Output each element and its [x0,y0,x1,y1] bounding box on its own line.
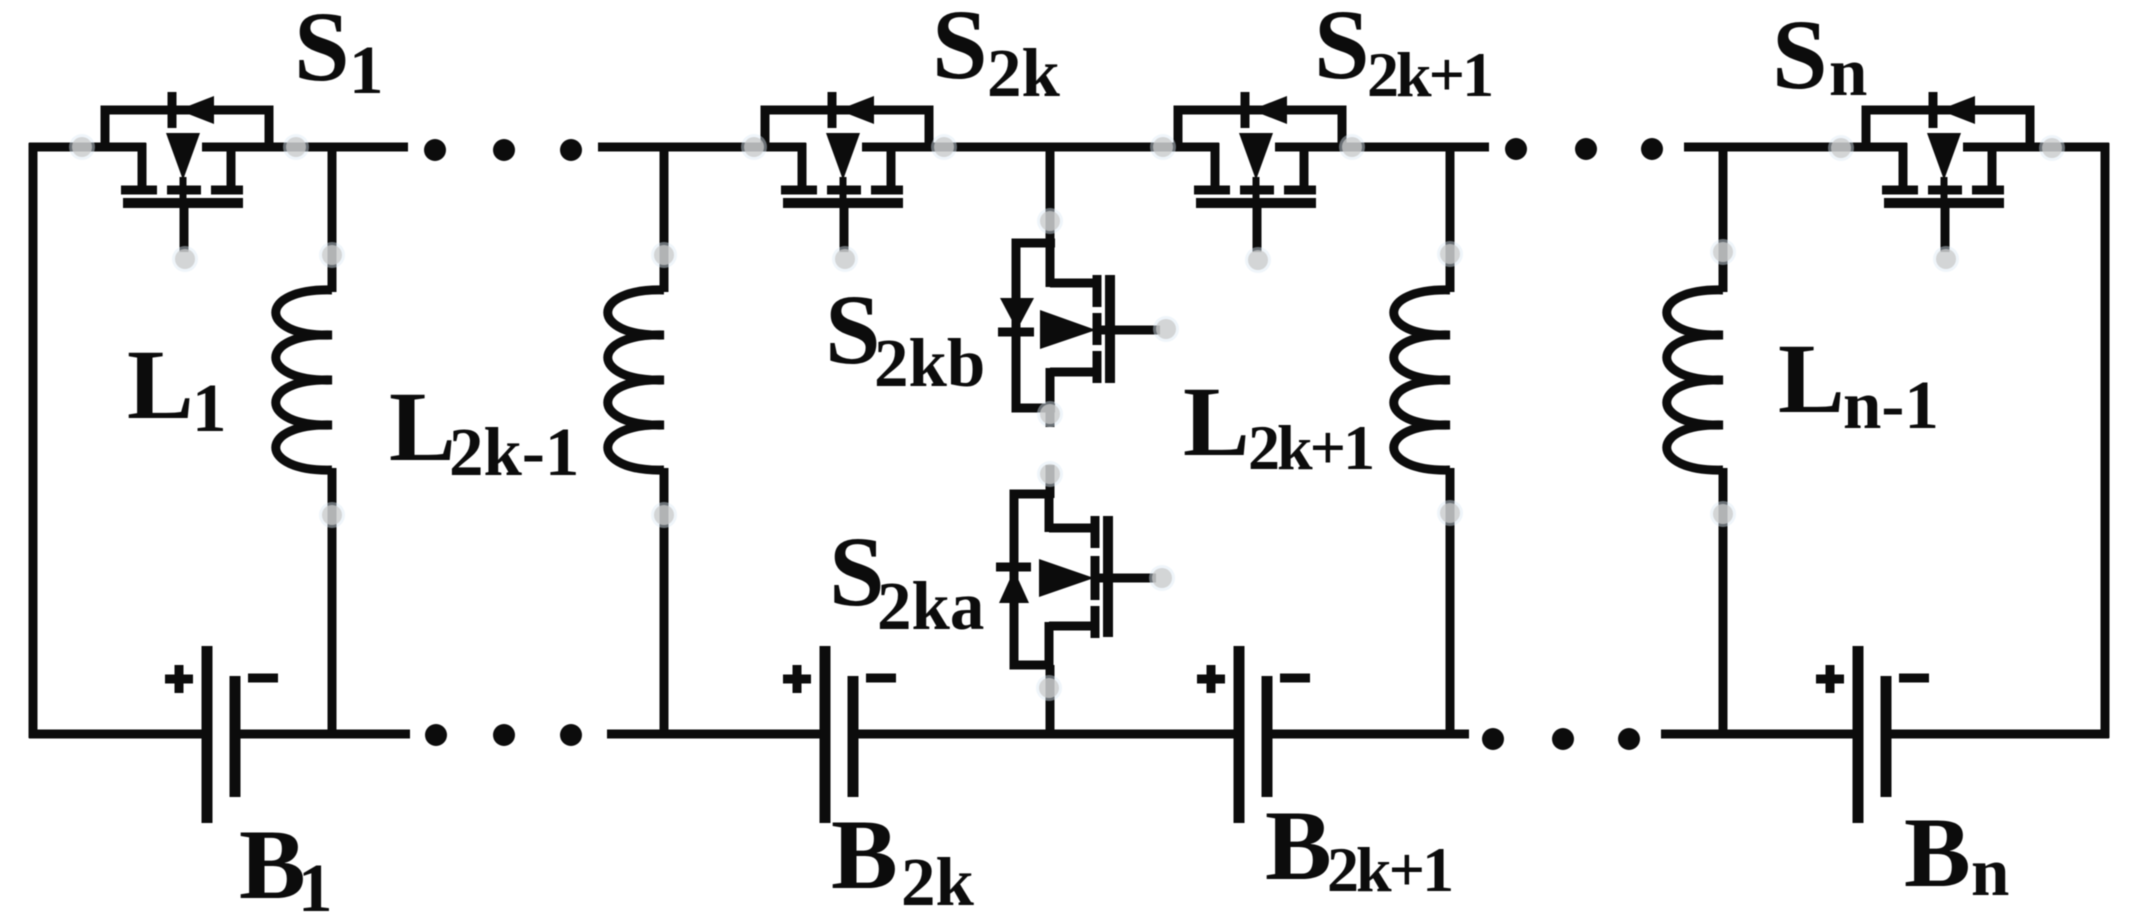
value label L2k-1 [389,371,579,490]
battery Bn [1858,646,1886,823]
svg-text:1: 1 [298,850,333,916]
wire (top bus segment x269-408) [269,143,408,152]
svg-text:L: L [1778,323,1845,434]
wire (bottom lead of L2k-1) [660,468,669,734]
plus terminal label of Bn [1816,665,1844,693]
minus terminal label of B1 [248,674,278,683]
node (ellipsis dots top-right continuation) [1505,138,1663,160]
inductor L2k+1 coil [1394,290,1450,470]
svg-text:n: n [1971,834,2009,910]
transistor S2k+1 (horizontal MOSFET with body diode) [1178,92,1342,252]
wire (bottom bus segment x235-410) [235,730,410,739]
node (gate terminal dots of S1,S2k,S2k+1,Sn) [172,246,1959,273]
node (ellipsis dots top-left continuation) [424,139,582,161]
battery B1 [207,646,235,823]
wire (bottom bus segment x1886-2109) [1886,730,2109,739]
plus terminal label of B1 [165,665,193,693]
wire (bottom bus segment x1661-1858) [1661,730,1858,739]
transistor Sn (horizontal MOSFET with body diode) [1866,92,2030,252]
wire (middle branch from top bus down to S2kb) [1046,147,1055,247]
battery B2k [825,646,853,823]
svg-text:2ka: 2ka [877,568,984,644]
wire (bottom bus segment x853-1239) [853,730,1239,739]
wire (bottom lead of L1) [328,468,337,734]
svg-text:2k+1: 2k+1 [1248,412,1372,483]
node (junction dots on inductor branches) [319,239,1736,528]
wire (bottom bus segment x1267-1469) [1267,730,1469,739]
wire (bottom bus segment x607-825) [607,730,825,739]
wire (from S2ka down to bottom bus) [1046,665,1055,738]
label S2k [932,0,1061,111]
svg-text:2kb: 2kb [874,325,985,401]
svg-text:1: 1 [349,32,384,108]
value label B2k [831,799,975,916]
wire (bottom lead of L2k+1) [1446,468,1455,734]
node (ellipsis dots bottom-left continuation) [425,724,582,746]
transistor S2ka (vertical MOSFET with body diode, anode down) [996,494,1156,665]
inductor L1 coil [276,290,332,470]
minus terminal label of B2k [866,674,896,683]
wire (top lead of L1) [328,147,337,292]
plus terminal label of B2k [783,665,811,693]
svg-text:n-1: n-1 [1843,367,1939,443]
svg-text:2k-1: 2k-1 [449,414,579,490]
wire (top bus segment x929-1178) [929,143,1178,152]
wire (top bus segment x2030-2109) [2030,143,2109,152]
svg-text:B: B [831,799,898,910]
wire (top bus segment x1342-1489) [1342,143,1489,152]
svg-text:S: S [932,0,988,100]
label S1 [294,0,384,108]
value label Ln-1 [1778,323,1939,443]
wire (segment between S2kb and S2ka) [1046,408,1055,498]
inductor Ln-1 coil [1667,290,1723,470]
label S2k+1 [1314,0,1491,110]
value label B2k+1 [1265,790,1451,905]
wire (bottom lead of Ln-1) [1719,468,1728,734]
label S2ka [829,516,984,644]
minus terminal label of Bn [1899,674,1929,683]
svg-text:B: B [1904,797,1971,908]
svg-text:S: S [294,0,350,102]
svg-text:2k: 2k [987,35,1061,111]
svg-text:2k: 2k [901,844,975,916]
svg-text:n: n [1829,34,1867,110]
wire (right edge vertical) [2101,143,2110,738]
wire (left edge vertical) [29,143,38,738]
wire (bottom bus segment x29-207) [29,730,207,739]
value label L2k+1 [1183,366,1372,483]
svg-text:S: S [1314,0,1370,100]
svg-text:B: B [1265,790,1332,901]
svg-text:B: B [239,809,306,916]
minus terminal label of B2k+1 [1280,674,1310,683]
svg-text:S: S [825,274,881,385]
svg-text:1: 1 [192,370,227,446]
svg-text:L: L [127,329,194,440]
label Sn [1772,0,1867,110]
svg-text:L: L [1183,366,1250,477]
wire (top bus segment x1684-1866) [1684,143,1866,152]
svg-text:S: S [1772,0,1828,110]
plus terminal label of B2k+1 [1197,665,1225,693]
wire (top lead of L2k+1) [1446,147,1455,292]
wire (top bus segment x29-105) [29,143,105,152]
svg-text:L: L [389,371,456,482]
value label Bn [1904,797,2009,910]
transistor S2k (horizontal MOSFET with body diode) [765,92,929,252]
svg-text:2k+1: 2k+1 [1327,834,1451,905]
node (gate terminal dots of S2kb,S2ka) [1149,316,1179,591]
node (junction dots on top bus) [69,134,2065,161]
node (ellipsis dots bottom-right continuation) [1482,728,1640,750]
wire (top lead of L2k-1) [660,147,669,292]
svg-text:2k+1: 2k+1 [1367,39,1491,110]
transistor S1 (horizontal MOSFET with body diode) [105,92,269,252]
battery B2k+1 [1239,646,1267,823]
inductor L2k-1 coil [608,290,664,470]
wire (top bus segment x598-765) [598,143,765,152]
wire (top lead of Ln-1) [1719,147,1728,292]
value label L1 [127,329,227,446]
label S2kb [825,274,985,401]
value label B1 [239,809,333,916]
transistor S2kb (vertical MOSFET with body diode, anode up) [998,243,1160,412]
node (junction dots on middle branch) [1036,208,1063,701]
